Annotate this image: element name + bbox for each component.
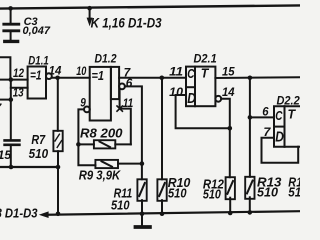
wire top power bus [0, 5, 300, 8]
svg-text:R8 200: R8 200 [80, 126, 123, 140]
svg-text:D1.2: D1.2 [95, 54, 118, 66]
svg-text:51: 51 [288, 185, 300, 199]
svg-text:R7: R7 [31, 133, 46, 147]
flip-flop D2.2 [274, 106, 300, 147]
wire pin 13 jog [11, 87, 28, 89]
svg-text:C: C [187, 67, 195, 81]
node junction pin6 D2.2 [248, 115, 253, 120]
svg-text:13: 13 [13, 85, 24, 99]
resistor R8 [78, 140, 130, 148]
label R12 510 [203, 177, 224, 201]
node junction top bus / C3 [8, 6, 13, 11]
wire vertical to D2.2 pin 6 and R13 [249, 78, 251, 177]
wire upper-left bus [0, 166, 58, 168]
wire ground bus [48, 211, 300, 215]
wire pin 11 with X [120, 89, 131, 144]
label C3 value [23, 16, 51, 37]
wire left cut-off box top [0, 57, 10, 79]
wire pin 6 down to R11 [125, 86, 142, 179]
pin 9 bubble [84, 107, 90, 113]
svg-text:0,047: 0,047 [23, 25, 51, 37]
wire R7 top lead [57, 78, 59, 131]
ground symbol [136, 214, 150, 227]
pin 6 bubble [119, 84, 125, 90]
svg-text:=1: =1 [92, 68, 105, 83]
svg-text:14: 14 [49, 64, 62, 78]
wire pin 6 D2.2 [250, 116, 274, 118]
op-amp gate D1.2 [90, 67, 119, 121]
wire pin 12 input [0, 79, 28, 81]
capacitor C3 [4, 24, 19, 40]
node junction left wire [9, 97, 14, 102]
svg-text:12: 12 [13, 66, 24, 80]
resistor R10 [157, 179, 166, 214]
node junction R8 left [76, 142, 81, 147]
wire power pin arrow K 1,16 D1-D3 [89, 8, 91, 19]
label R7 510 [29, 133, 48, 161]
svg-text:D2.1: D2.1 [194, 54, 217, 66]
svg-text:11: 11 [169, 65, 183, 79]
node junction R13/bus [248, 210, 253, 215]
wire pin 9 to R network [78, 109, 95, 165]
svg-text:D1.1: D1.1 [28, 55, 49, 67]
wire R10 vertical [161, 78, 163, 180]
svg-text:D: D [187, 91, 196, 107]
wire from left edge [0, 99, 11, 101]
svg-text:15: 15 [0, 148, 11, 162]
node junction pin12 [9, 77, 14, 82]
wire D1.2 pin7 to D2.1 pin 11 [119, 77, 186, 79]
svg-text:C: C [275, 109, 283, 123]
svg-text:510: 510 [168, 186, 187, 200]
svg-text:510: 510 [29, 147, 48, 161]
svg-text:D2.2: D2.2 [277, 95, 301, 107]
svg-text:510: 510 [111, 198, 130, 212]
node junction R12/bus [228, 211, 233, 216]
label R10 510 [168, 176, 191, 200]
node junction R11/bus [140, 211, 145, 216]
resistor R12 [226, 177, 235, 213]
svg-text:510: 510 [203, 187, 221, 201]
resistor R7 [53, 131, 62, 151]
svg-text:15: 15 [222, 65, 235, 79]
ground under C3 [5, 40, 18, 43]
op-amp gate D1.1 [28, 67, 52, 99]
label R13 510 [257, 175, 281, 199]
label R14 510 cut at edge [288, 175, 302, 199]
node junction R10/bus [160, 211, 165, 216]
ground arrow 8 D1-D3 [39, 211, 49, 218]
node junction top bus / K arrow [87, 6, 92, 11]
node junction R7/bus [56, 165, 61, 170]
node junction output/R7 [55, 76, 60, 81]
wire C3 top lead [10, 8, 12, 23]
svg-text:10: 10 [76, 64, 86, 78]
wire vertical left column [10, 80, 12, 140]
node junction pin15 / D2.2 feed [248, 76, 253, 81]
svg-text:T: T [288, 107, 297, 122]
svg-text:510: 510 [257, 185, 278, 199]
svg-text:K 1,16 D1-D3: K 1,16 D1-D3 [91, 14, 162, 30]
svg-text:R9 3,9K: R9 3,9K [79, 169, 121, 183]
wire D1.1 output to D1.2 pin 10 [52, 77, 90, 79]
wire D2.1 pin10 feedback loop [176, 95, 230, 128]
node junction pin7 wire / R10 [160, 76, 165, 81]
node junction cap/bus [9, 165, 14, 170]
node X mark pin 11 [117, 106, 122, 111]
resistor R13 [245, 177, 254, 213]
wire pin14 out to R12 [221, 99, 230, 177]
resistor R9 [95, 160, 141, 168]
capacitor left (cut label) [5, 140, 20, 167]
svg-text:D: D [275, 130, 284, 146]
resistor R11 [137, 179, 146, 214]
svg-text:8 D1-D3: 8 D1-D3 [0, 207, 38, 221]
flip-flop D2.1 [186, 67, 221, 107]
svg-text:T: T [201, 65, 210, 80]
svg-text:14: 14 [222, 85, 235, 99]
svg-text:6: 6 [262, 104, 268, 118]
wire D2.1 pin15 output [215, 76, 300, 79]
wire R7 bottom lead to ground bus [57, 151, 59, 214]
node junction feedback / pin14 vertical [228, 126, 233, 131]
node junction R7/ground bus [56, 212, 61, 217]
wire pin 7 D2.2 feedback [262, 138, 299, 163]
svg-text:=1: =1 [30, 67, 42, 82]
label R11 510 [111, 186, 132, 212]
node junction R9 right / pin6 vertical [140, 161, 145, 166]
